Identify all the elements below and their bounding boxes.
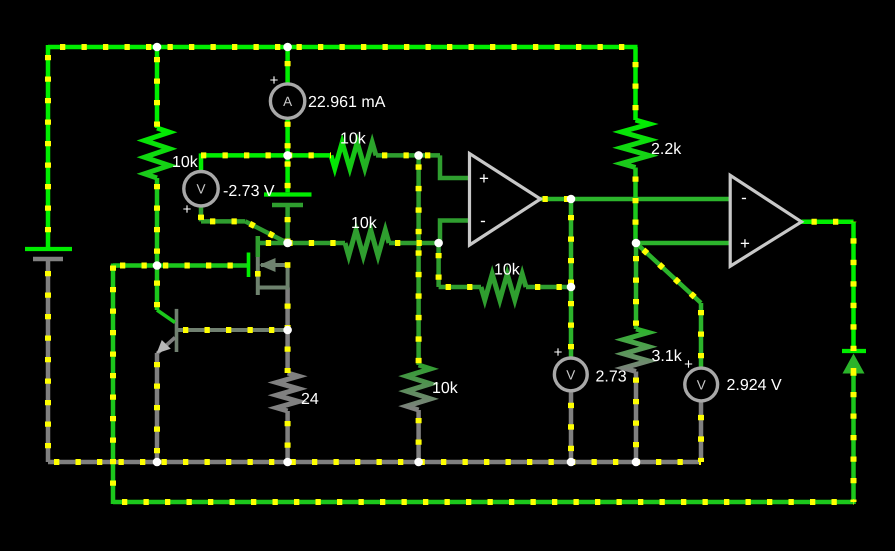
svg-text:2.2k: 2.2k	[651, 141, 682, 158]
svg-text:10k: 10k	[340, 131, 367, 148]
svg-text:3.1k: 3.1k	[652, 348, 683, 365]
svg-text:+: +	[479, 169, 489, 188]
svg-text:22.961 mA: 22.961 mA	[308, 94, 386, 111]
svg-text:2.924 V: 2.924 V	[727, 377, 782, 394]
svg-text:+: +	[270, 72, 279, 89]
svg-text:-2.73 V: -2.73 V	[223, 183, 275, 200]
svg-text:10k: 10k	[494, 262, 521, 279]
svg-text:A: A	[283, 94, 292, 109]
svg-text:+: +	[554, 344, 563, 361]
svg-text:V: V	[566, 367, 575, 382]
svg-text:V: V	[196, 182, 205, 197]
svg-text:+: +	[740, 234, 750, 253]
svg-text:10k: 10k	[432, 380, 459, 397]
svg-text:-: -	[741, 188, 747, 207]
svg-text:+: +	[684, 356, 693, 373]
svg-text:24: 24	[301, 391, 319, 408]
svg-text:2.73: 2.73	[596, 369, 627, 386]
svg-text:10k: 10k	[172, 154, 199, 171]
svg-text:-: -	[480, 211, 486, 230]
svg-text:V: V	[697, 378, 706, 393]
svg-text:10k: 10k	[351, 215, 378, 232]
svg-text:+: +	[183, 201, 192, 218]
